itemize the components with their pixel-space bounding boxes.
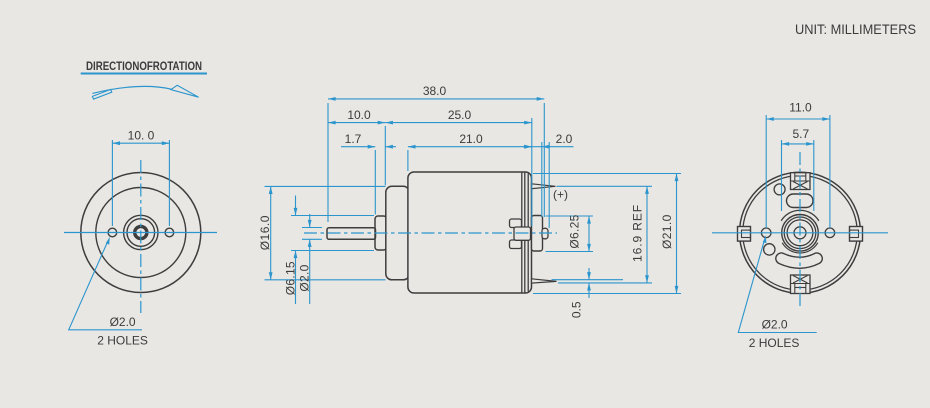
leader line 2 holes rear [738,242,816,333]
top housing X stroke 2 [793,182,808,190]
dim dia2 lower arrow [308,239,312,247]
ext 0.5 upper [552,279,624,281]
right tab [850,227,863,242]
small circle lower left [764,244,775,255]
dim 38.0 arrow right [537,97,545,101]
dim 5.7 arrow left [782,142,790,146]
leader arrowhead [106,237,110,245]
ext line bushing face [374,150,376,215]
bottom housing inner right vertical [805,284,807,294]
dim 2.0 left arrow tail [523,146,532,148]
dim dia2 upper tail [309,214,311,228]
boss inner ring [784,217,816,249]
svg-text:(+): (+) [553,188,568,202]
center line dashed [304,232,557,234]
dim 25.0 line [385,122,532,124]
dim dia16 arrow bottom [269,272,273,280]
left tab [738,227,751,242]
leader line 2 holes [69,244,142,330]
svg-text:Ø2.0: Ø2.0 [110,315,136,329]
title underline [81,73,207,75]
horizontal centerline [712,232,888,234]
dim 10.0 extension line right [168,140,170,226]
dim 16.9 line [646,186,648,283]
dim 0.5 upper tail [588,268,590,280]
horizontal centerline [64,232,217,234]
shaft center ring [794,227,806,239]
rotation arrow left head [92,89,111,99]
ext line can back [531,118,533,226]
svg-text:Ø6.25: Ø6.25 [568,214,582,248]
small circle upper left [774,184,785,195]
svg-text:2.0: 2.0 [556,132,573,146]
bottom collar arc [784,242,817,251]
dim 25.0 arrow left [385,121,393,125]
dim dia21 arrow top [675,174,679,182]
mounting hole right [165,228,174,237]
dim dia6.15 lower tail [295,251,297,305]
svg-text:38.0: 38.0 [423,84,447,98]
svg-text:Ø16.0: Ø16.0 [258,215,272,250]
svg-text:2 HOLES: 2 HOLES [97,334,148,348]
ext dia21 top [533,173,681,175]
svg-text:11.0: 11.0 [789,101,812,115]
right tab notch [850,230,859,237]
mounting hole left [108,228,117,237]
dim dia16 line [270,186,272,279]
svg-text:25.0: 25.0 [448,108,472,122]
dim 21.0 line [408,146,532,148]
can crimp seam 2 [524,173,526,293]
front view inner circle [96,188,186,278]
ext 16.9 bottom [558,282,652,284]
bottom housing inner left vertical [794,284,796,294]
dim 2.0 mid segment [532,146,542,148]
svg-text:5.7: 5.7 [792,127,809,141]
ext 16.9 top [557,185,653,187]
dim 11.0 line [766,118,830,120]
shaft ring [135,226,147,238]
dim 10.0 extension line left [111,140,113,226]
bottom housing X stroke 1 [793,276,808,284]
dim dia6.15 upper tail [295,196,297,216]
ext dia2 top [302,227,322,229]
leader arrowhead rear [763,235,767,243]
top housing inner left vertical [794,173,796,181]
ext line boss tip [548,142,550,228]
terminal top [532,184,556,189]
bottom housing rung 1 [791,283,811,285]
dim 1.7 right arrow tail [385,146,396,148]
dim 1.7 tail line [341,146,375,148]
top brush housing [791,173,811,190]
svg-text:10.0: 10.0 [347,108,371,122]
brush clip bottom flange [510,240,522,249]
ext line bell face [384,126,386,185]
top housing rung 1 [795,175,806,177]
bottom housing X stroke 2 [793,276,808,284]
dim 10.0 arrow left [112,141,120,145]
dim 10.0 line [328,122,385,124]
left tab notch [742,230,751,237]
dim 11.0 arrow left [766,117,774,121]
dim 0.5 upper arrow [587,272,591,280]
svg-text:2 HOLES: 2 HOLES [749,336,800,350]
svg-text:Ø21.0: Ø21.0 [660,214,674,249]
boss outer ring [782,215,819,252]
ext dia21 bottom [533,293,681,295]
dim dia21 arrow bottom [675,286,679,294]
svg-text:UNIT: MILLIMETERS: UNIT: MILLIMETERS [795,21,916,37]
svg-text:Ø6.15: Ø6.15 [283,261,297,295]
bushing [375,216,387,250]
brush clip top flange [510,219,522,228]
terminal bottom [532,279,557,283]
ext line shaft tip vertical [327,103,329,222]
dim dia6.25 line [588,216,590,252]
ext 11.0 right [829,115,831,228]
svg-text:Ø2.0: Ø2.0 [298,264,312,291]
dim 0.5 lower arrow [587,283,591,291]
dim 16.9 arrow top [645,186,649,194]
rotation arrow arc [92,86,172,93]
vertical centerline dashed [140,160,142,313]
ext dia6.25 bottom [546,251,594,253]
dim 0.5 lower tail [588,283,590,298]
dim dia6.25 arrow top [587,216,591,224]
ext line boss end [541,142,543,217]
ext dia16 bottom [265,279,386,281]
dim 10.0 line [112,142,169,144]
ext dia2 bottom [302,238,322,240]
front boss circle outer [124,215,158,249]
bottom brush housing [791,275,811,294]
vertical centerline dashed [799,152,801,309]
rotation arrow right head [171,85,199,97]
dim 5.7 arrow right [806,142,814,146]
mount hole right [825,228,835,238]
dim 5.7 line [782,143,814,145]
dim 25.0 arrow right [524,121,532,125]
dim dia16 arrow top [269,186,273,194]
brush clip middle block [514,227,531,240]
dim 11.0 arrow right [822,117,830,121]
front boss circle inner [127,219,155,247]
dim 2.0 left arrow [524,145,532,149]
lower banana slot [781,259,817,263]
svg-text:DIRECTIONOFROTATION: DIRECTIONOFROTATION [86,59,202,73]
svg-text:10. 0: 10. 0 [128,129,155,143]
front view outer circle [81,173,201,293]
dim 1.7 right arrow [385,145,393,149]
dim dia6.15 upper arrow [294,208,298,216]
ext dia6.15 top [291,215,374,217]
top housing rung 2 [791,180,811,182]
bearing ring [787,220,813,246]
ext dia6.25 top [546,215,594,217]
svg-text:1.7: 1.7 [345,132,362,146]
shaft [327,228,376,240]
dim dia6.25 arrow bottom [587,244,591,252]
bottom housing rung 2 [795,287,806,289]
can endcap seam [527,174,529,292]
ext 5.7 left [781,140,783,211]
ext 11.0 left [765,115,767,228]
dim 38.0 arrow left [328,97,336,101]
dim 2.0 right arrow [542,145,550,149]
dim 10.0 arrow left [328,121,336,125]
ext dia6.15 bottom [291,250,374,252]
dim 21.0 arrow left [408,145,416,149]
dim 10.0 arrow right [378,121,386,125]
dim dia21 line [676,174,678,294]
top housing X stroke 1 [793,182,808,190]
top housing inner right vertical [805,173,807,181]
ext line 38 right [543,103,545,217]
rear bearing boss [532,216,543,252]
front bell [386,186,410,279]
can crimp seam 1 [521,173,523,293]
dim 38.0 line [328,98,544,100]
dim 1.7 arrow [368,145,376,149]
main can body [408,172,532,293]
dim dia2 upper arrow [308,220,312,228]
dim 2.0 tail line [542,146,574,148]
dim dia2 lower tail [309,239,311,304]
svg-text:0.5: 0.5 [570,301,584,318]
dim 16.9 arrow bottom [645,275,649,283]
rear view outer circle [740,172,861,293]
svg-text:16.9 REF: 16.9 REF [631,204,645,262]
rear view inner circle [743,176,858,291]
svg-text:21.0: 21.0 [459,132,483,146]
ext 5.7 right [813,140,815,211]
ext line can face [407,150,409,171]
dim 21.0 arrow right [524,145,532,149]
top collar arc [783,212,817,221]
mount hole left [761,228,771,238]
ext dia16 top [265,185,386,187]
upper pill slot [787,194,814,208]
svg-text:Ø2.0: Ø2.0 [762,318,788,332]
dim dia6.15 lower arrow [294,251,298,259]
rear shaft tip [542,228,548,239]
dim 10.0 arrow right [162,141,170,145]
